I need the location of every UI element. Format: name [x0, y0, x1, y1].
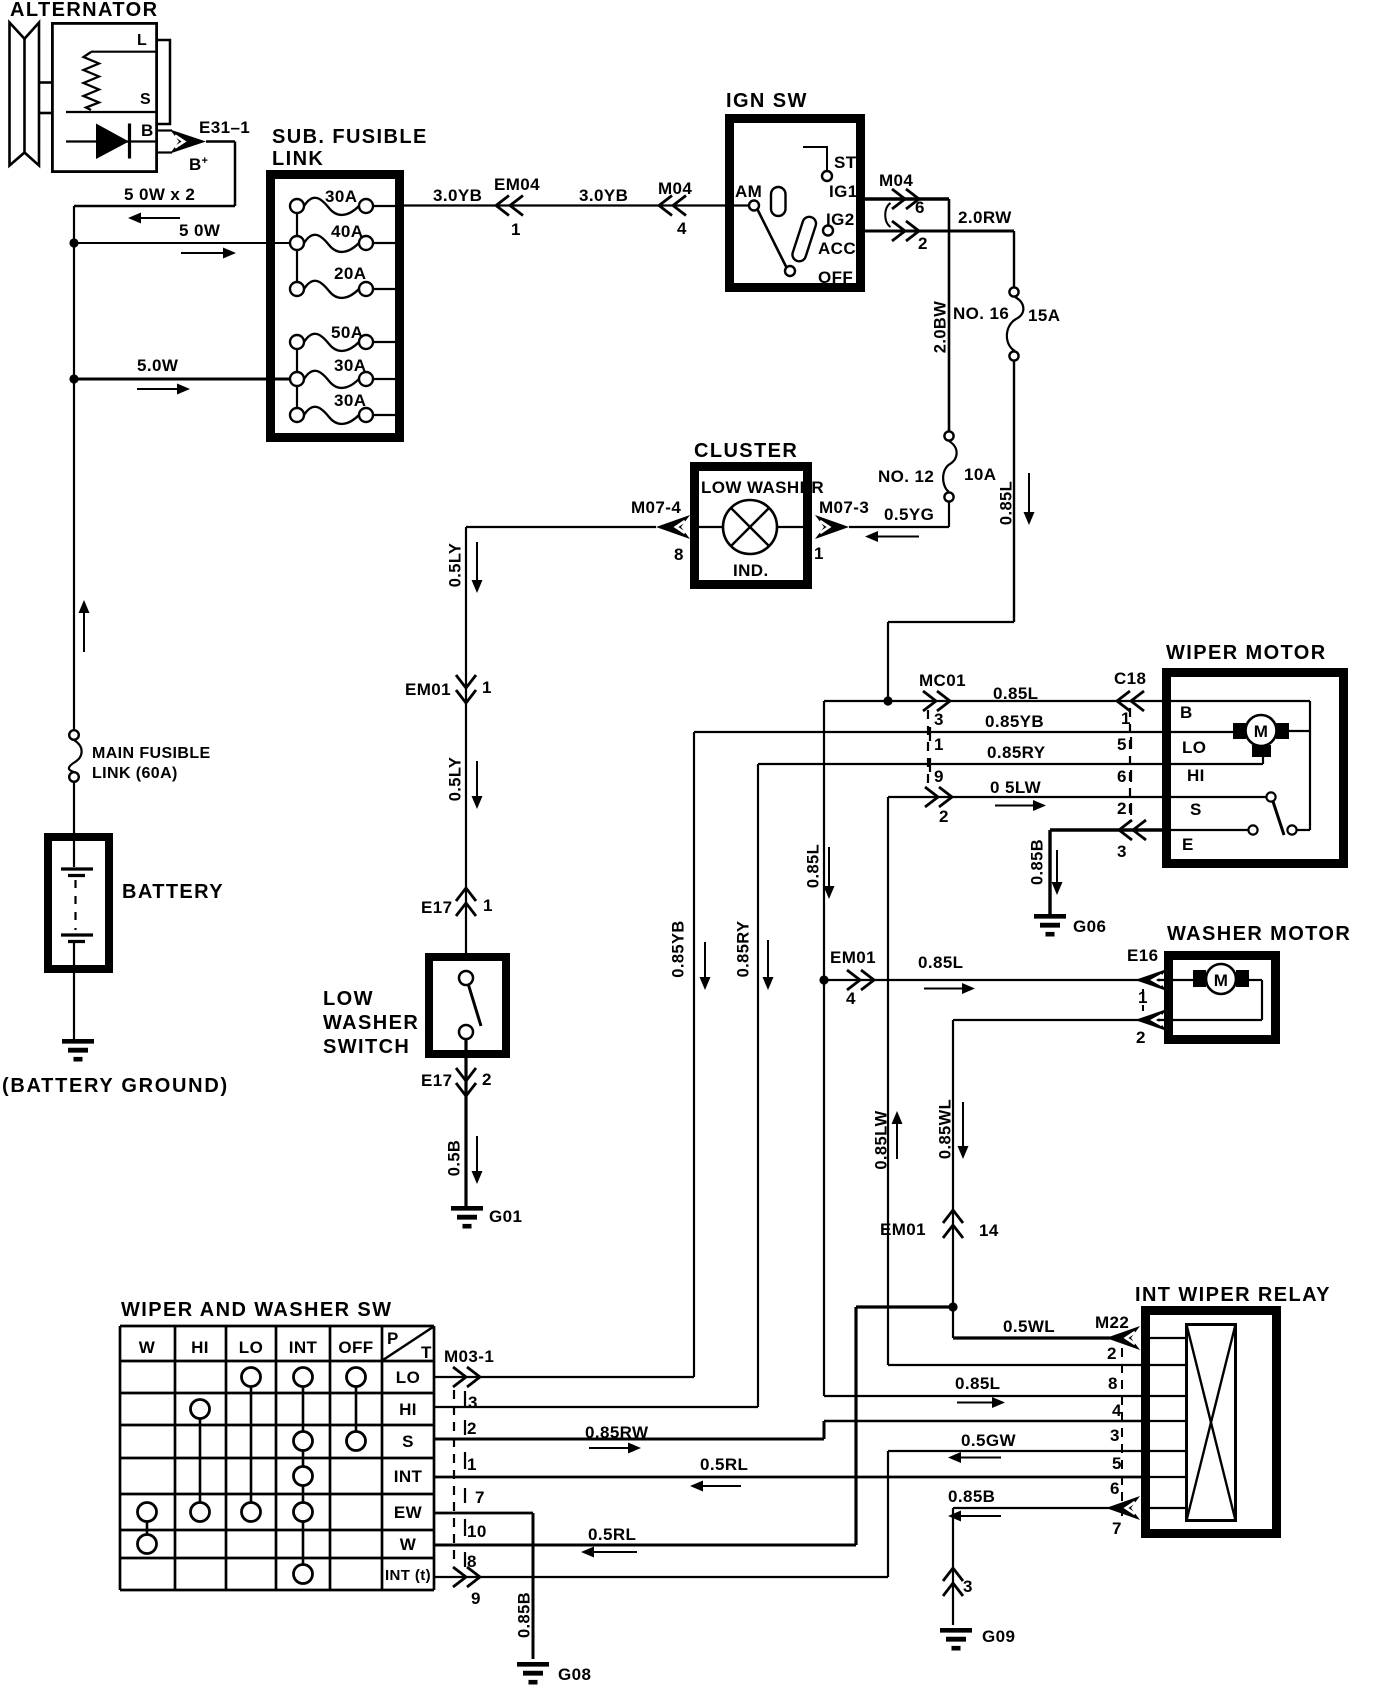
svg-text:W: W — [400, 1535, 417, 1554]
svg-text:EM04: EM04 — [494, 175, 540, 194]
svg-text:2.0BW: 2.0BW — [932, 301, 950, 353]
svg-text:8: 8 — [467, 1552, 477, 1571]
svg-text:0.5RL: 0.5RL — [700, 1455, 748, 1474]
svg-text:0.85L: 0.85L — [918, 953, 963, 972]
svg-text:INT WIPER RELAY: INT WIPER RELAY — [1135, 1284, 1331, 1306]
svg-text:G01: G01 — [489, 1207, 522, 1226]
svg-text:OFF: OFF — [818, 268, 853, 287]
svg-text:8: 8 — [674, 545, 684, 564]
svg-text:ACC: ACC — [818, 239, 856, 258]
svg-text:1: 1 — [814, 544, 824, 563]
svg-text:ST: ST — [834, 153, 857, 172]
svg-text:0.85L: 0.85L — [955, 1374, 1000, 1393]
svg-text:E17: E17 — [421, 898, 452, 917]
svg-text:M: M — [1254, 722, 1269, 741]
svg-text:0.85B: 0.85B — [1029, 839, 1047, 885]
svg-text:S: S — [402, 1432, 414, 1451]
svg-text:2: 2 — [467, 1419, 477, 1438]
svg-text:3: 3 — [934, 710, 944, 729]
svg-text:IGN SW: IGN SW — [726, 90, 808, 112]
svg-text:0.85RW: 0.85RW — [585, 1423, 649, 1442]
svg-text:EM01: EM01 — [830, 948, 876, 967]
svg-text:IG2: IG2 — [826, 210, 855, 229]
svg-text:2: 2 — [1136, 1028, 1146, 1047]
svg-text:AM: AM — [735, 182, 762, 201]
svg-text:0 5LW: 0 5LW — [990, 778, 1042, 797]
svg-text:3.0YB: 3.0YB — [579, 186, 628, 205]
svg-text:40A: 40A — [331, 222, 363, 241]
svg-text:3: 3 — [468, 1393, 478, 1412]
svg-text:G08: G08 — [558, 1665, 591, 1684]
svg-text:INT (t): INT (t) — [385, 1567, 431, 1584]
svg-text:E17: E17 — [421, 1071, 452, 1090]
svg-text:30A: 30A — [334, 391, 366, 410]
svg-text:1: 1 — [511, 220, 521, 239]
svg-text:EM01: EM01 — [880, 1220, 926, 1239]
svg-text:M04: M04 — [879, 171, 913, 190]
svg-text:0.85LW: 0.85LW — [873, 1110, 891, 1169]
svg-text:0.5B: 0.5B — [446, 1140, 464, 1176]
svg-text:LINK: LINK — [272, 148, 324, 170]
svg-text:0.85L: 0.85L — [993, 684, 1038, 703]
svg-text:5 0W: 5 0W — [179, 221, 221, 240]
svg-text:3.0YB: 3.0YB — [433, 186, 482, 205]
svg-text:5.0W: 5.0W — [137, 356, 179, 375]
svg-text:WASHER: WASHER — [323, 1012, 419, 1034]
svg-text:0.5LY: 0.5LY — [447, 757, 465, 802]
svg-text:SUB. FUSIBLE: SUB. FUSIBLE — [272, 126, 428, 148]
svg-text:1: 1 — [1121, 709, 1131, 728]
svg-text:6: 6 — [915, 198, 925, 217]
svg-text:0.5RL: 0.5RL — [588, 1525, 636, 1544]
svg-text:8: 8 — [1108, 1374, 1118, 1393]
svg-text:L: L — [137, 32, 147, 49]
svg-text:G06: G06 — [1073, 917, 1106, 936]
svg-text:T: T — [421, 1343, 432, 1362]
svg-text:0.85L: 0.85L — [805, 844, 823, 888]
svg-text:NO. 12: NO. 12 — [878, 467, 934, 486]
svg-text:2.0RW: 2.0RW — [958, 208, 1012, 227]
svg-text:30A: 30A — [325, 187, 357, 206]
svg-text:5: 5 — [1112, 1454, 1122, 1473]
svg-text:IG1: IG1 — [829, 182, 858, 201]
svg-text:LO: LO — [239, 1338, 263, 1357]
svg-text:WASHER MOTOR: WASHER MOTOR — [1167, 923, 1351, 945]
svg-text:WIPER MOTOR: WIPER MOTOR — [1166, 642, 1327, 664]
svg-text:6: 6 — [1110, 1479, 1120, 1498]
svg-text:2: 2 — [939, 807, 949, 826]
svg-text:WIPER AND WASHER SW: WIPER AND WASHER SW — [121, 1299, 392, 1321]
svg-text:MAIN FUSIBLE: MAIN FUSIBLE — [92, 745, 211, 762]
svg-text:W: W — [139, 1338, 156, 1357]
svg-text:0.5YG: 0.5YG — [884, 505, 934, 524]
svg-text:G09: G09 — [982, 1627, 1015, 1646]
svg-text:14: 14 — [979, 1221, 999, 1240]
svg-text:20A: 20A — [334, 264, 366, 283]
svg-text:10A: 10A — [964, 465, 996, 484]
svg-text:M07-3: M07-3 — [819, 498, 869, 517]
svg-text:EW: EW — [394, 1503, 423, 1522]
svg-text:E31–1: E31–1 — [199, 118, 250, 137]
svg-text:0.5WL: 0.5WL — [1003, 1317, 1055, 1336]
svg-text:+: + — [202, 155, 209, 167]
svg-text:B: B — [141, 121, 154, 140]
svg-text:E16: E16 — [1127, 946, 1158, 965]
svg-text:5 0W x 2: 5 0W x 2 — [124, 185, 195, 204]
svg-text:15A: 15A — [1028, 306, 1060, 325]
svg-text:2: 2 — [918, 234, 928, 253]
svg-text:LINK (60A): LINK (60A) — [92, 765, 178, 782]
svg-text:INT: INT — [394, 1467, 423, 1486]
svg-text:0.85RY: 0.85RY — [735, 921, 753, 978]
svg-text:LO: LO — [396, 1368, 420, 1387]
svg-text:3: 3 — [1110, 1426, 1120, 1445]
svg-text:0.85B: 0.85B — [948, 1487, 995, 1506]
svg-text:EM01: EM01 — [405, 680, 451, 699]
svg-text:5: 5 — [1117, 735, 1127, 754]
svg-text:HI: HI — [1187, 766, 1205, 785]
svg-text:C18: C18 — [1114, 669, 1146, 688]
svg-text:0.85YB: 0.85YB — [670, 920, 688, 977]
svg-text:P: P — [387, 1329, 399, 1348]
svg-text:10: 10 — [467, 1522, 487, 1541]
svg-text:7: 7 — [475, 1488, 485, 1507]
svg-text:3: 3 — [1117, 842, 1127, 861]
svg-text:30A: 30A — [334, 356, 366, 375]
svg-text:IND.: IND. — [733, 561, 769, 580]
svg-text:1: 1 — [483, 896, 493, 915]
svg-text:2: 2 — [1117, 799, 1127, 818]
svg-text:0.85L: 0.85L — [998, 481, 1016, 525]
svg-text:7: 7 — [1112, 1519, 1122, 1538]
svg-text:M03-1: M03-1 — [444, 1347, 494, 1366]
svg-text:B: B — [189, 155, 202, 174]
svg-text:LO: LO — [1182, 738, 1206, 757]
svg-text:CLUSTER: CLUSTER — [694, 440, 798, 462]
svg-text:(BATTERY GROUND): (BATTERY GROUND) — [2, 1075, 229, 1097]
svg-text:0.85WL: 0.85WL — [937, 1099, 955, 1159]
svg-text:4: 4 — [846, 989, 856, 1008]
svg-text:M04: M04 — [658, 179, 692, 198]
svg-text:HI: HI — [191, 1338, 209, 1357]
svg-text:6: 6 — [1117, 767, 1127, 786]
svg-text:INT: INT — [289, 1338, 318, 1357]
svg-text:HI: HI — [399, 1400, 417, 1419]
svg-text:0.85B: 0.85B — [516, 1592, 534, 1638]
svg-text:0.85RY: 0.85RY — [987, 743, 1046, 762]
svg-text:ALTERNATOR: ALTERNATOR — [10, 0, 158, 21]
svg-text:S: S — [1190, 800, 1202, 819]
svg-text:LOW: LOW — [323, 988, 374, 1010]
svg-text:BATTERY: BATTERY — [122, 881, 224, 903]
svg-text:LOW WASHER: LOW WASHER — [701, 478, 824, 497]
svg-text:3: 3 — [963, 1577, 973, 1596]
svg-text:1: 1 — [934, 735, 944, 754]
svg-text:S: S — [140, 91, 151, 108]
svg-text:NO. 16: NO. 16 — [953, 304, 1009, 323]
svg-text:OFF: OFF — [338, 1338, 373, 1357]
svg-text:4: 4 — [1112, 1401, 1122, 1420]
svg-text:0.5GW: 0.5GW — [961, 1431, 1016, 1450]
svg-text:0.5LY: 0.5LY — [447, 543, 465, 588]
svg-text:9: 9 — [471, 1589, 481, 1608]
svg-text:MC01: MC01 — [919, 671, 966, 690]
svg-text:1: 1 — [467, 1455, 477, 1474]
svg-text:M07-4: M07-4 — [631, 498, 681, 517]
svg-text:M22: M22 — [1095, 1313, 1129, 1332]
svg-text:0.85YB: 0.85YB — [985, 712, 1044, 731]
svg-text:50A: 50A — [331, 323, 363, 342]
svg-text:2: 2 — [1107, 1344, 1117, 1363]
svg-text:M: M — [1214, 971, 1229, 990]
svg-text:E: E — [1182, 835, 1194, 854]
svg-text:SWITCH: SWITCH — [323, 1036, 410, 1058]
svg-text:B: B — [1180, 703, 1193, 722]
svg-text:1: 1 — [482, 678, 492, 697]
svg-text:9: 9 — [934, 767, 944, 786]
svg-text:2: 2 — [482, 1070, 492, 1089]
svg-text:4: 4 — [677, 219, 687, 238]
